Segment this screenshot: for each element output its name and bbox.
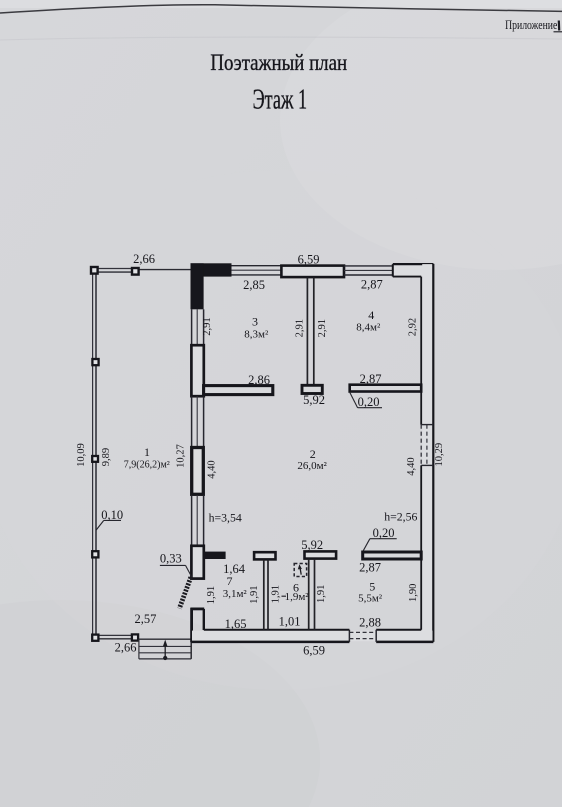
dim 2,66 bottom [115,641,137,655]
porch post P3 [92,456,98,462]
svg-text:3,1м²: 3,1м² [223,588,248,600]
partition 6/5 top bar (5,92) [305,551,337,558]
header note Приложение [505,19,562,32]
dim 1,91 partition7/6 right (rotated) [270,585,281,603]
dim 1,91 room5 left (rotated) [316,585,327,603]
partition 3/4 foot bar (5,92) [302,385,322,393]
dim 0,10 porch wall [101,508,123,522]
dim 0,33 [160,552,182,566]
hatch symbol in room 6 (dashed box with arrow) [294,564,306,577]
dim 2,87 room5 top [359,561,381,575]
dim 6,59 bottom [303,644,325,658]
svg-text:h=2,56: h=2,56 [384,510,417,524]
partition rooms 3/4 double line [307,277,313,385]
left wall pier A [191,345,203,396]
svg-text:4,40: 4,40 [406,457,417,475]
left wall: top-left corner solid black [191,263,232,309]
svg-text:1,01: 1,01 [279,615,301,629]
porch post P4 [92,551,98,557]
room 2 area 26,0м² [297,460,327,472]
porch post P6 top [132,268,139,275]
svg-text:1,91: 1,91 [270,585,281,603]
svg-text:2,66: 2,66 [133,252,155,266]
porch post P5 bottom-left [92,635,98,641]
svg-text:0,10: 0,10 [101,508,123,522]
note h=3,54 [209,511,242,525]
dim 2,85 [243,278,265,292]
title Поэтажный план [210,49,347,75]
svg-text:2,86: 2,86 [248,373,270,387]
dim 1,64 [223,562,246,576]
room 4 area 8,4м² [356,322,381,334]
svg-text:2,87: 2,87 [361,278,383,292]
dim 2,87 room4 bottom [360,372,382,386]
entrance door leaf (hatched) [179,577,190,608]
svg-text:6,59: 6,59 [303,644,325,658]
dim 1,91 room7 left (rotated) [206,586,217,604]
porch bottom single line to building [137,638,192,640]
svg-text:5,92: 5,92 [303,393,325,407]
partition 7/6 top bar (1,64 side) [254,552,275,559]
svg-text:Приложение: Приложение [505,19,557,32]
dim 9,89 (rotated) [101,448,112,466]
leader for 0,20 (room 4 wall) [350,393,382,408]
room 5 area 5,5м² [358,593,383,605]
dim 2,91 room3 left (rotated) [202,317,213,335]
window W1 top wall (2,85) [231,266,281,275]
room 7 number [227,574,233,588]
dim 6,59 top [298,253,320,267]
room 6 area 1,9м² [282,591,310,603]
room 7 top wall arm (solid) [204,552,226,559]
dim 4,40 left wall (rotated) [207,460,218,478]
room 3 area 8,3м² [244,329,269,341]
svg-text:9,89: 9,89 [101,448,112,466]
svg-text:2,91: 2,91 [294,319,305,337]
room 5 top wall [363,552,422,559]
svg-text:2,85: 2,85 [243,278,265,292]
porch top single line to building [138,269,191,271]
svg-text:1: 1 [144,445,150,459]
left wall window L3 [192,495,204,546]
svg-text:2,87: 2,87 [359,561,381,575]
bottom wall dashed door opening (2,88) [349,630,376,642]
dim 1,91 partition7/6 left (rotated) [249,586,260,604]
dim 1,65 [225,617,247,631]
porch bottom wall double line [96,635,132,638]
porch post P7 bottom [132,634,138,640]
dim 2,92 right wall (rotated) [407,318,418,336]
svg-text:7: 7 [227,574,233,588]
svg-text:2,91: 2,91 [317,319,328,337]
left wall window L1 (2,91) [192,309,204,345]
svg-text:10,27: 10,27 [175,444,186,468]
dim 2,86 [248,373,270,387]
window W2 top wall (2,87) [344,266,393,275]
partition rooms 7/6 double line [264,560,268,630]
leader for 0,20 (room 5 wall) [363,539,397,552]
dim 4,40 right wall (rotated) [406,457,417,475]
svg-text:1,9м²: 1,9м² [285,591,310,603]
note h=2,56 [384,510,417,524]
svg-text:h=3,54: h=3,54 [209,511,242,525]
room 3 bottom wall (2,86) [204,386,273,395]
dim 10,09 (rotated) [76,443,87,467]
left wall pier C near door [191,546,203,579]
page top scanned edge line [0,5,562,13]
svg-text:2,57: 2,57 [134,612,156,626]
dim 2,91 partition right (rotated) [317,319,328,337]
svg-text:1,65: 1,65 [225,617,247,631]
room 4 number [368,308,374,322]
svg-text:6,59: 6,59 [298,253,320,267]
svg-text:Этаж 1: Этаж 1 [253,85,307,116]
dim 2,91 partition left (rotated) [294,319,305,337]
staircase box and steps [139,639,191,659]
dim 5,92 upper [303,393,325,407]
svg-text:2,87: 2,87 [360,372,382,386]
dim 5,92 lower [301,538,323,552]
svg-text:4: 4 [368,308,374,322]
room 7 area 3,1м² [223,588,248,600]
bottom wall band [191,630,433,642]
right wall dashed window opening (10,29) [421,425,433,466]
svg-text:0,33: 0,33 [160,552,182,566]
svg-text:8,3м²: 8,3м² [244,329,269,341]
svg-text:2,92: 2,92 [407,318,418,336]
svg-text:1,91: 1,91 [249,586,260,604]
svg-text:1,90: 1,90 [408,584,419,602]
top wall pier between windows [281,266,344,278]
left wall window pier B (4,40) [192,448,204,495]
room 3 number [252,315,258,329]
dim 0,20 room5 wall [373,526,395,540]
dim 2,88 [359,616,381,630]
room 6 number [293,581,299,595]
porch post P2 [92,359,98,365]
room 4 bottom wall (2,87) [350,385,422,392]
svg-text:26,0м²: 26,0м² [297,460,327,472]
svg-text:5: 5 [369,580,375,594]
room 1 number [144,445,150,459]
svg-text:10,29: 10,29 [434,443,445,467]
svg-text:3: 3 [252,315,258,329]
porch top wall double line [96,269,133,273]
svg-text:4,40: 4,40 [207,460,218,478]
dim 2,66 top [133,252,155,266]
svg-text:0,20: 0,20 [358,395,380,409]
dim 2,57 porch bottom [134,612,156,626]
svg-text:7,9(26,2)м²: 7,9(26,2)м² [124,460,170,471]
dim 1,01 [279,615,301,629]
room 1 area 7,9(26,2)м² [124,460,170,471]
svg-text:8,4м²: 8,4м² [356,322,381,334]
svg-text:Поэтажный план: Поэтажный план [210,49,347,75]
svg-text:5,92: 5,92 [301,538,323,552]
svg-text:10,09: 10,09 [76,443,87,467]
leader for 0,33 (wall pier) [160,565,192,577]
dim 2,87 top right [361,278,383,292]
dim 0,20 room4 wall [358,395,380,409]
room 2 number [310,447,316,461]
svg-text:2,91: 2,91 [202,317,213,335]
partition rooms 6/5 double line [309,559,315,630]
right wall band [421,264,433,642]
svg-text:1,91: 1,91 [316,585,327,603]
leader for 0,10 (porch wall) [96,520,121,530]
svg-text:0,20: 0,20 [373,526,395,540]
porch left wall double line [93,270,96,638]
svg-text:2,88: 2,88 [359,616,381,630]
svg-text:5,5м²: 5,5м² [358,593,383,605]
porch post P1 top-left [91,267,98,274]
top-right corner wall band [393,264,434,277]
door jamb / bottom-left wall corner [191,608,204,643]
svg-text:2: 2 [310,447,316,461]
subtitle Этаж 1 [253,85,307,116]
left wall window L2 [192,396,204,447]
dim 10,27 (rotated) [175,444,186,468]
dim 10,29 (rotated) [434,443,445,467]
staircase direction arrow [163,640,168,661]
svg-text:1,91: 1,91 [206,586,217,604]
svg-text:2,66: 2,66 [115,641,137,655]
dim 1,90 room5 right (rotated) [408,584,419,602]
room 5 number [369,580,375,594]
